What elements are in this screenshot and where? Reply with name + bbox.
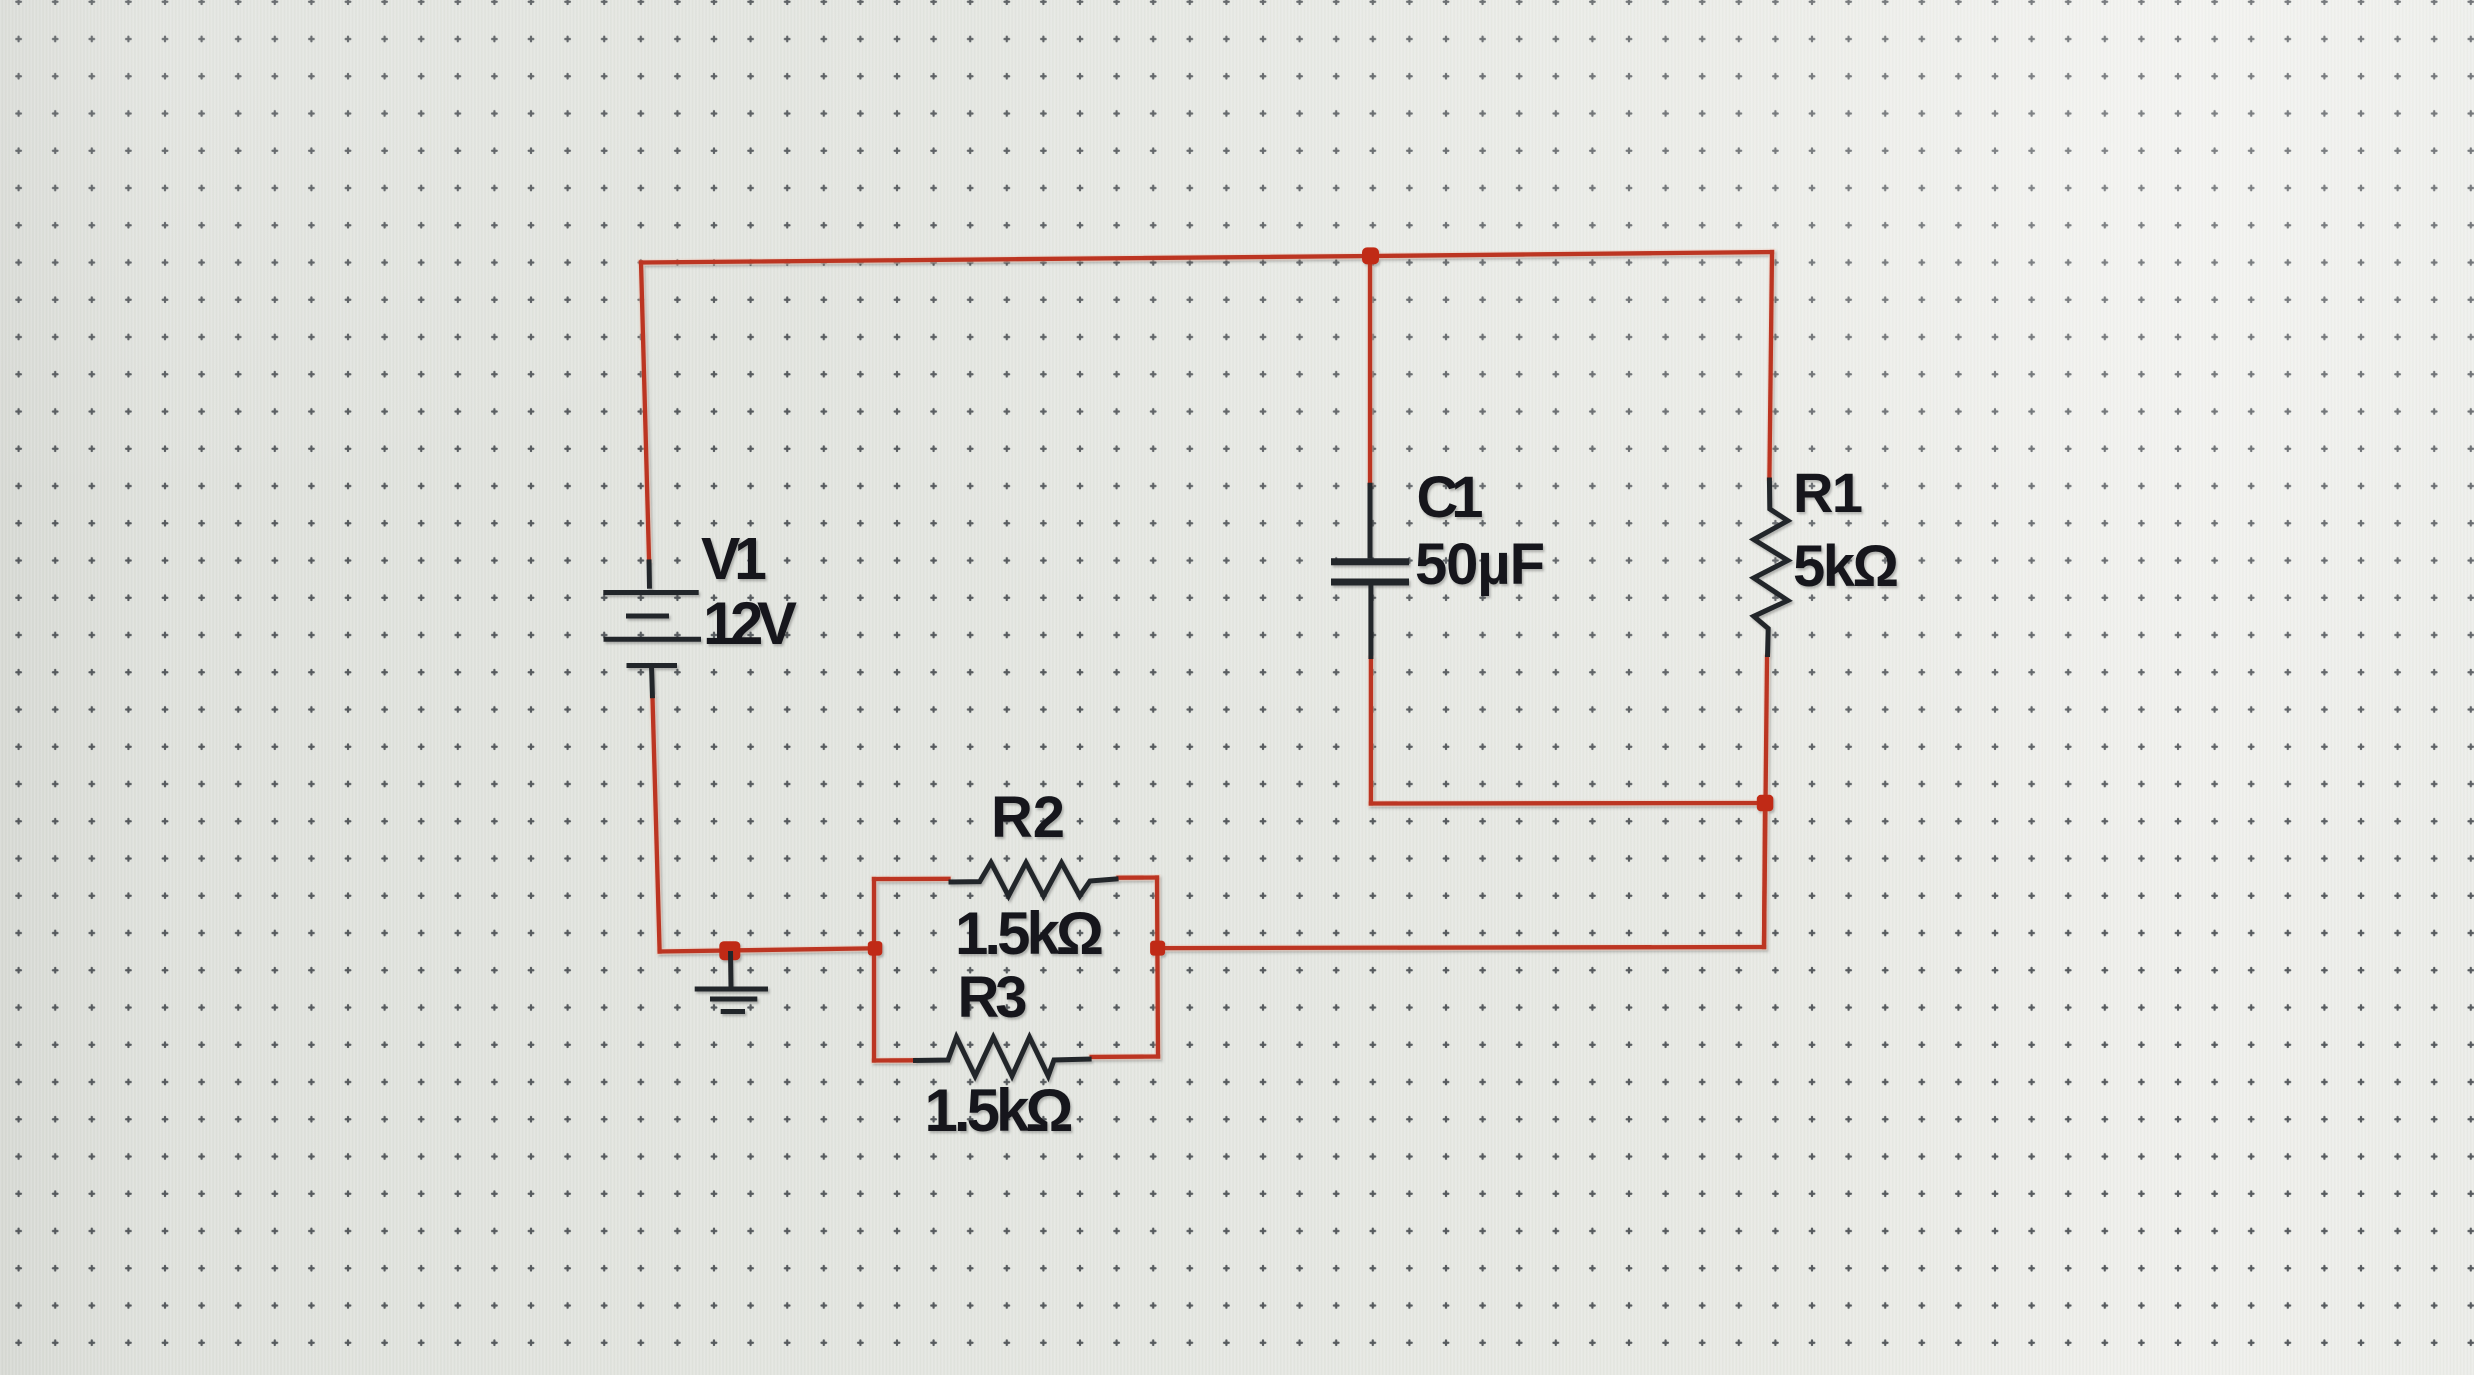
capacitor C1: [1368, 483, 1373, 559]
node ground junction: [719, 941, 740, 960]
svg-text:50µF: 50µF: [1415, 532, 1545, 597]
node C1/R1 junction: [1757, 795, 1774, 812]
wire C1 bottom lead: [1370, 659, 1372, 804]
resistor R1: [1754, 478, 1788, 658]
wire R1 top lead: [1769, 252, 1772, 478]
wire R3 bottom edge red stubs: [874, 1059, 913, 1061]
svg-text:R1: R1: [1793, 461, 1863, 524]
svg-text:V1: V1: [701, 526, 767, 592]
battery V1: [647, 559, 653, 588]
wire R2R3 box left edge: [873, 879, 875, 1061]
resistor R2: [949, 863, 1119, 897]
wire bottom left: [660, 948, 875, 951]
wire C1 bottom horizontal: [1371, 802, 1765, 805]
svg-text:1.5kΩ: 1.5kΩ: [955, 900, 1104, 967]
wire C1 top lead: [1369, 256, 1371, 483]
node right R2R3 junction: [1150, 941, 1165, 956]
wire red stroke (all red nets): [641, 252, 1772, 1061]
svg-text:12V: 12V: [703, 590, 797, 657]
wire top net: [641, 252, 1772, 263]
svg-text:C1: C1: [1417, 465, 1484, 530]
wire left lower (V1 bottom lead): [653, 698, 660, 951]
node left R2R3 junction: [868, 941, 883, 956]
wire R1 bottom lead: [1764, 657, 1767, 947]
wire R2R3 box right edge: [1157, 878, 1158, 1057]
svg-text:5kΩ: 5kΩ: [1793, 534, 1899, 599]
wire R2 top edge red stubs: [874, 878, 949, 880]
wire right riser: [1764, 803, 1765, 947]
ground: [728, 951, 734, 987]
wire middle net: [1158, 947, 1764, 948]
svg-text:R3: R3: [958, 965, 1028, 1030]
wire halo glow (all red nets): [641, 252, 1772, 1061]
svg-text:R2: R2: [991, 785, 1065, 850]
resistor R3: [913, 1037, 1092, 1076]
wire left upper (V1 top lead): [641, 263, 649, 560]
node top C1 junction: [1362, 247, 1379, 264]
svg-text:1.5kΩ: 1.5kΩ: [925, 1077, 1074, 1144]
node junction dots: [719, 247, 1773, 960]
